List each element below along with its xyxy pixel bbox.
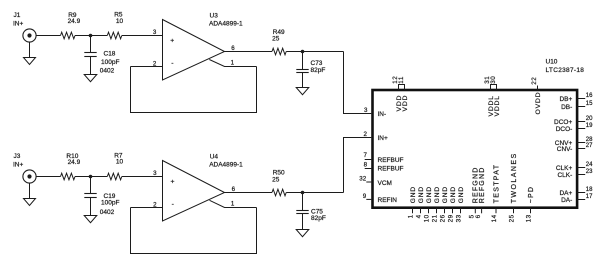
pin 17 DA- of U10 (577, 199, 585, 201)
svg-text:11: 11 (398, 76, 405, 84)
pin 1 GND of U10 (412, 208, 414, 214)
pin 26 GND of U10 (444, 208, 446, 214)
pin 15 DB- of U10 (577, 106, 585, 108)
wire J3 to R10 (36, 176, 60, 178)
node junction R9/C18 (89, 34, 93, 38)
svg-text:DB+: DB+ (559, 96, 572, 103)
svg-text:IN-: IN- (378, 111, 387, 118)
svg-text:DCO+: DCO+ (554, 119, 572, 126)
pin 29 GND of U10 (452, 208, 454, 214)
capacitor C73 (296, 69, 308, 71)
wire U4 feedback loop (131, 208, 257, 254)
svg-text:C18: C18 (104, 51, 116, 58)
wire R9 to R5 (75, 35, 107, 37)
svg-text:29: 29 (447, 214, 454, 222)
wire U3 feedback loop (131, 67, 257, 113)
svg-text:TWOLANES: TWOLANES (511, 152, 518, 203)
svg-text:32: 32 (359, 176, 366, 183)
svg-text:22: 22 (531, 77, 538, 85)
svg-text:IN+: IN+ (378, 135, 389, 142)
wire node to C73 (302, 52, 304, 70)
svg-text:VCM: VCM (378, 180, 392, 187)
svg-text:J3: J3 (14, 153, 21, 160)
svg-text:+: + (170, 37, 174, 44)
svg-text:6: 6 (475, 214, 482, 218)
wire node to C75 (302, 193, 304, 211)
svg-text:3: 3 (364, 107, 368, 114)
capacitor C19 (84, 193, 96, 195)
pin 27 CNV- of U10 (577, 148, 585, 150)
wire U3 pin 2 (131, 66, 163, 68)
svg-text:-: - (171, 60, 173, 67)
svg-text:DB-: DB- (561, 104, 572, 111)
svg-text:REFBUF: REFBUF (378, 157, 404, 164)
svg-text:10: 10 (423, 214, 430, 222)
wire U4 pin 1 feedback tap (210, 200, 257, 207)
svg-text:1: 1 (407, 214, 414, 218)
svg-text:13: 13 (525, 214, 532, 222)
pin 19 DCO- of U10 (577, 128, 585, 130)
wire U4 pin 2 (131, 207, 163, 209)
svg-text:10: 10 (116, 18, 124, 25)
op-amp U3 (163, 20, 225, 81)
ground at C18 (84, 75, 97, 82)
wire C73 to ground (302, 73, 304, 88)
pins 31,30 VDDL of U10 (491, 85, 497, 91)
svg-text:15: 15 (586, 101, 593, 107)
svg-text:33: 33 (455, 214, 462, 222)
svg-text:100pF: 100pF (101, 59, 119, 66)
node junction R49/C73 (301, 50, 305, 54)
svg-text:+: + (171, 178, 175, 185)
pin 33 GND of U10 (460, 208, 462, 214)
wire U4 output (225, 192, 273, 194)
pin 16 DB+ of U10 (577, 98, 585, 100)
svg-text:24.9: 24.9 (68, 159, 81, 166)
wire R10 to R7 (75, 176, 107, 178)
wire node to C19 (90, 177, 92, 194)
svg-text:-: - (172, 201, 174, 208)
svg-text:24.9: 24.9 (68, 18, 81, 25)
svg-text:6: 6 (232, 186, 236, 193)
svg-text:1: 1 (231, 200, 235, 207)
svg-text:REFBUF: REFBUF (378, 165, 404, 172)
pin 5 REFGND of U10 (474, 208, 476, 214)
ground at J1 (24, 58, 36, 65)
connector J3 (23, 170, 36, 183)
pins 12,11 VDD of U10 (399, 85, 405, 91)
svg-text:6: 6 (231, 45, 235, 52)
capacitor C75 (296, 210, 308, 212)
svg-text:GND: GND (450, 186, 457, 203)
svg-text:CLK+: CLK+ (556, 165, 573, 172)
svg-text:DCO-: DCO- (556, 126, 573, 133)
wire R50 to node (286, 192, 343, 194)
wire J1 to ground (29, 42, 31, 57)
resistor R7 (107, 173, 122, 180)
op-amp U4 (163, 161, 225, 222)
svg-text:CNV-: CNV- (557, 146, 573, 153)
svg-text:REFGND: REFGND (479, 167, 486, 204)
svg-text:26: 26 (439, 214, 446, 222)
svg-text:REFIN: REFIN (378, 197, 398, 204)
ground at J3 (24, 199, 36, 206)
wire J3 to ground (29, 183, 31, 198)
svg-text:27: 27 (586, 143, 593, 149)
wire to U10 IN- (344, 52, 372, 114)
svg-text:J1: J1 (14, 12, 21, 19)
svg-text:3: 3 (153, 170, 157, 177)
resistor R5 (107, 32, 122, 39)
wire U3 pin 1 feedback tap (209, 60, 256, 67)
wire C18 to ground (90, 57, 92, 75)
svg-text:24: 24 (586, 162, 593, 168)
svg-text:20: 20 (586, 116, 593, 122)
resistor R50 (272, 189, 286, 196)
svg-text:TESTPAT: TESTPAT (493, 164, 500, 204)
wire U3 output (225, 51, 273, 53)
pin 28 CNV+ of U10 (577, 142, 585, 144)
svg-text:ADA4899-1: ADA4899-1 (209, 161, 243, 168)
svg-text:82pF: 82pF (311, 67, 326, 74)
pin 4 GND of U10 (420, 208, 422, 214)
svg-text:21: 21 (431, 214, 438, 222)
svg-text:82pF: 82pF (311, 215, 326, 222)
svg-text:100pF: 100pF (101, 200, 119, 207)
svg-text:3: 3 (153, 29, 157, 36)
svg-text:GND: GND (442, 186, 449, 203)
svg-text:U4: U4 (210, 153, 219, 160)
svg-text:ADA4899-1: ADA4899-1 (209, 21, 243, 28)
wire node to C18 (90, 36, 92, 53)
svg-text:GND: GND (426, 186, 433, 203)
svg-text:U10: U10 (546, 59, 558, 66)
pin 22 OVDD of U10 (537, 86, 539, 91)
resistor R49 (272, 48, 286, 55)
svg-text:9: 9 (363, 193, 367, 200)
svg-text:GND: GND (418, 186, 425, 203)
pin 10 GND of U10 (428, 208, 430, 214)
pin 6 REFGND of U10 (481, 208, 483, 214)
svg-text:16: 16 (586, 93, 593, 99)
svg-text:IN+: IN+ (13, 21, 24, 28)
svg-text:18: 18 (586, 187, 593, 193)
capacitor C18 (84, 52, 96, 54)
svg-text:7: 7 (363, 152, 367, 159)
svg-text:VDD: VDD (402, 95, 409, 112)
pin 25 TWOLANES of U10 (513, 208, 515, 214)
pin 14 TESTPAT of U10 (495, 208, 497, 214)
svg-text:25: 25 (508, 214, 515, 222)
svg-text:23: 23 (586, 169, 593, 175)
wire C19 to ground (90, 198, 92, 216)
resistor R9 (61, 32, 76, 39)
svg-text:1: 1 (231, 59, 235, 66)
wire R7 to U4 pin 3 (122, 176, 163, 178)
svg-text:DA-: DA- (561, 197, 572, 204)
wire J1 to R9 (36, 35, 60, 37)
svg-text:4: 4 (415, 214, 422, 218)
svg-text:0402: 0402 (100, 67, 115, 74)
svg-text:OVDD: OVDD (535, 92, 542, 115)
pin 13 PD of U10 (530, 208, 532, 214)
svg-text:2: 2 (363, 131, 367, 138)
svg-text:30: 30 (490, 76, 497, 84)
svg-text:GND: GND (434, 186, 441, 203)
svg-text:GND: GND (410, 186, 417, 203)
svg-text:14: 14 (491, 214, 498, 222)
node junction R50/C75 (301, 191, 305, 195)
wire to U10 IN+ (344, 138, 372, 193)
pin 18 DA+ of U10 (577, 192, 585, 194)
node junction R10/C19 (89, 175, 93, 179)
pin 24 CLK+ of U10 (577, 167, 585, 169)
wire R5 to U3 pin 3 (122, 35, 163, 37)
svg-text:~PD: ~PD (528, 186, 535, 203)
ground at C19 (84, 216, 97, 223)
svg-text:VDDL: VDDL (494, 95, 501, 116)
svg-text:CLK-: CLK- (557, 172, 572, 179)
ground at C75 (296, 230, 309, 237)
svg-text:10: 10 (116, 159, 124, 166)
pin 21 GND of U10 (436, 208, 438, 214)
svg-text:25: 25 (272, 36, 280, 43)
wire R49 to node (286, 51, 343, 53)
connector J1 (23, 29, 36, 42)
svg-text:17: 17 (586, 194, 593, 200)
ADC U10 body (373, 90, 578, 208)
svg-text:0402: 0402 (100, 209, 115, 216)
svg-text:U3: U3 (210, 13, 219, 20)
svg-text:LTC2387-18: LTC2387-18 (546, 67, 585, 74)
svg-text:25: 25 (272, 176, 280, 183)
svg-text:8: 8 (364, 161, 368, 168)
resistor R10 (61, 173, 76, 180)
pin 20 DCO+ of U10 (577, 121, 585, 123)
ground at C73 (296, 88, 309, 95)
wire C75 to ground (302, 214, 304, 230)
svg-text:IN+: IN+ (13, 161, 24, 168)
pin 23 CLK- of U10 (577, 174, 585, 176)
svg-text:19: 19 (586, 123, 593, 129)
svg-text:DA+: DA+ (559, 190, 572, 197)
svg-text:GND: GND (458, 186, 465, 203)
